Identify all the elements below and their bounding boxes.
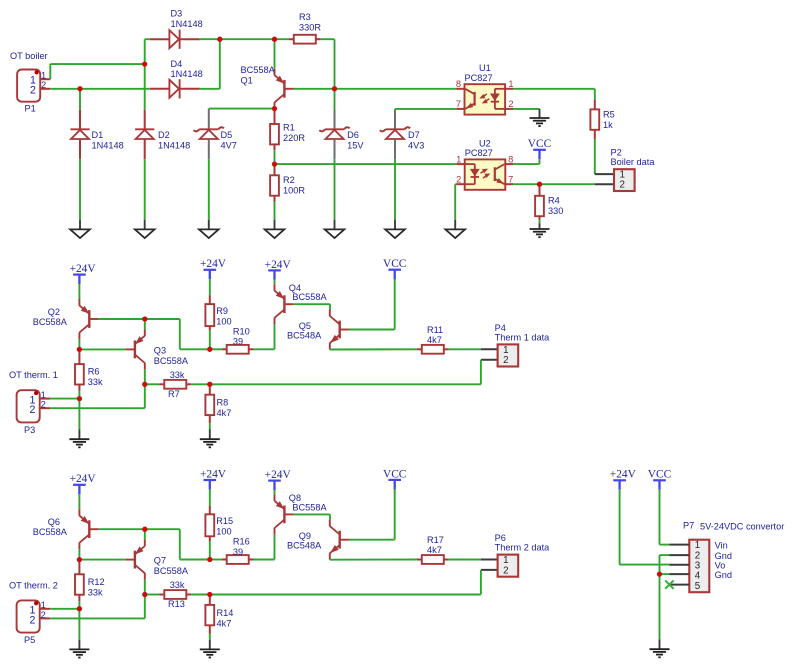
wire (78, 601, 80, 609)
wire (480, 360, 482, 385)
connector P2 (614, 169, 635, 191)
resistor R14 4k7 (209, 595, 211, 605)
ground earth (78, 430, 80, 440)
svg-text:2: 2 (30, 404, 36, 416)
wire P6 pin2 (481, 569, 498, 571)
svg-text:1k: 1k (603, 120, 613, 130)
wire (274, 150, 276, 164)
wire (78, 609, 80, 640)
wire (210, 559, 222, 561)
resistor R10 39 (222, 348, 227, 350)
svg-text:2: 2 (41, 610, 46, 620)
node junction (142, 382, 147, 387)
svg-text:+24V: +24V (265, 469, 292, 481)
wire (254, 348, 275, 350)
diode D3 (150, 38, 170, 40)
svg-text:VCC: VCC (528, 138, 551, 150)
resistor R17 4k7 (417, 559, 422, 561)
wire Q2 collector (78, 339, 80, 349)
wire P4 pin2 (481, 359, 498, 361)
connector P6 (498, 555, 519, 577)
transistor Q6 (88, 520, 90, 538)
optocoupler U1 (465, 84, 506, 114)
wire (79, 159, 81, 220)
wire P2 pin2 stub (595, 183, 614, 185)
svg-text:D5: D5 (221, 130, 233, 140)
resistor R3 (289, 38, 294, 40)
node junction (207, 382, 212, 387)
wire Q7 collector (144, 580, 146, 595)
connector P7 (689, 540, 709, 593)
svg-text:1: 1 (41, 71, 46, 81)
svg-text:1N4148: 1N4148 (171, 19, 203, 29)
wire (209, 423, 211, 429)
node junction (77, 86, 82, 91)
svg-text:PC827: PC827 (465, 148, 493, 158)
svg-text:Q5: Q5 (299, 321, 311, 331)
svg-text:P1: P1 (25, 103, 36, 113)
wire (208, 159, 210, 220)
wire (619, 490, 621, 565)
svg-text:1N4148: 1N4148 (92, 141, 124, 151)
ground (334, 220, 336, 230)
wire U1 pin2 to ground (513, 108, 539, 110)
wire R1 R2 to U2 pin1 (275, 163, 457, 165)
wire (210, 383, 481, 385)
P7 pin 1 stub (669, 544, 689, 546)
svg-text:4k7: 4k7 (427, 545, 442, 555)
svg-text:39: 39 (233, 547, 243, 557)
svg-text:VCC: VCC (383, 258, 406, 270)
wire Q1 collector (274, 108, 276, 110)
wire (321, 38, 335, 40)
transistor Q9 (339, 531, 341, 549)
wire Q5 base VCC (349, 329, 395, 331)
wire (78, 284, 80, 299)
svg-text:4k7: 4k7 (217, 408, 232, 418)
resistor R15 100 (209, 506, 211, 515)
wire Q9 emitter (330, 559, 417, 561)
svg-text:BC558A: BC558A (33, 527, 68, 537)
resistor R7 33k (145, 383, 160, 385)
svg-text:+24V: +24V (200, 258, 227, 270)
connector P1 (17, 70, 40, 102)
svg-text:BC548A: BC548A (287, 331, 322, 341)
wire (210, 348, 222, 350)
zener D7 (394, 110, 396, 129)
connector P3 (17, 390, 40, 422)
svg-text:7: 7 (456, 99, 461, 109)
resistor R6 (78, 349, 80, 364)
svg-text:R14: R14 (217, 608, 234, 618)
svg-text:D7: D7 (408, 130, 420, 140)
svg-text:1: 1 (508, 79, 513, 89)
wire (144, 39, 146, 110)
wire (210, 594, 481, 596)
wire (179, 319, 181, 349)
wire (449, 348, 481, 350)
P5 pin 1 (40, 608, 51, 610)
zener D6 (334, 89, 336, 110)
svg-text:R15: R15 (216, 516, 233, 526)
wire Q3 collector (144, 369, 146, 384)
ground (454, 220, 456, 230)
P5 pin 2 (40, 617, 51, 619)
connector P5 (17, 600, 40, 632)
P7 pin 5 stub (669, 584, 689, 586)
svg-text:+24V: +24V (610, 469, 637, 481)
wire (50, 608, 79, 610)
svg-text:330R: 330R (299, 22, 321, 32)
wire P2 pin1 stub (595, 173, 614, 175)
resistor R1 (274, 109, 276, 124)
node junction (142, 527, 147, 532)
ground earth (539, 109, 541, 118)
wire (394, 159, 396, 220)
connector P4 (498, 344, 519, 366)
svg-text:R16: R16 (233, 537, 250, 547)
wire Q4 base (294, 303, 330, 305)
svg-text:39: 39 (233, 337, 243, 347)
wire Q8 base (294, 513, 330, 515)
svg-text:330: 330 (548, 206, 563, 216)
svg-text:Q9: Q9 (299, 531, 311, 541)
svg-text:P3: P3 (24, 425, 35, 435)
transistor Q4 (283, 295, 285, 313)
wire (200, 88, 220, 90)
wire (49, 64, 51, 79)
node junction (272, 106, 277, 111)
svg-text:Q7: Q7 (154, 556, 166, 566)
wire Q7 emitter (144, 529, 146, 539)
svg-text:1: 1 (41, 390, 46, 400)
diode D2 (144, 110, 146, 130)
svg-text:4k7: 4k7 (217, 618, 232, 628)
wire (145, 38, 150, 40)
svg-text:Therm 2 data: Therm 2 data (495, 543, 551, 553)
P3 pin 1 (40, 398, 51, 400)
wire (78, 399, 80, 430)
resistor R8 4k7 (209, 384, 211, 394)
transistor Q1 (283, 80, 285, 98)
svg-text:P4: P4 (495, 323, 506, 333)
resistor R13 33k (145, 594, 160, 596)
svg-text:4k7: 4k7 (427, 335, 442, 345)
wire (209, 108, 275, 110)
svg-text:1: 1 (503, 555, 508, 566)
wire Q3 base (79, 348, 125, 350)
wire (78, 391, 80, 399)
node junction (207, 557, 212, 562)
transistor Q3 (134, 341, 136, 359)
svg-text:Q1: Q1 (241, 76, 253, 86)
wire U1 pin1 net (513, 88, 594, 90)
ground (394, 220, 396, 230)
U2 pin 1 (456, 163, 464, 165)
svg-text:4V7: 4V7 (221, 141, 237, 151)
svg-text:BC558A: BC558A (154, 566, 189, 576)
wire P1 pin2 net (50, 88, 150, 90)
svg-text:R10: R10 (233, 326, 250, 336)
resistor R11 4k7 (417, 348, 422, 350)
svg-text:2: 2 (619, 180, 624, 191)
wire (274, 202, 276, 220)
svg-text:Q3: Q3 (154, 345, 166, 355)
P3 pin 2 (40, 407, 51, 409)
P1 pin 1 (40, 78, 50, 80)
svg-text:33k: 33k (170, 370, 185, 380)
ground (79, 220, 81, 230)
svg-text:7: 7 (508, 174, 513, 184)
transistor Q7 (134, 551, 136, 569)
svg-text:R11: R11 (427, 325, 443, 335)
node junction (537, 182, 542, 187)
svg-text:100R: 100R (283, 186, 305, 196)
svg-text:BC558A: BC558A (292, 502, 327, 512)
svg-text:U1: U1 (479, 63, 491, 73)
ground earth (209, 430, 211, 440)
svg-text:D6: D6 (347, 130, 359, 140)
svg-text:BC558A: BC558A (33, 317, 68, 327)
node junction (272, 37, 277, 42)
node junction (332, 86, 337, 91)
svg-text:R7: R7 (168, 389, 180, 399)
wire (209, 331, 211, 350)
U1 pin 7 (456, 108, 464, 110)
wire (78, 494, 80, 509)
U1 pin 1 (505, 88, 513, 90)
wire U1 pin7 net (394, 109, 396, 110)
diode D4 (150, 88, 170, 90)
svg-text:R2: R2 (283, 175, 295, 185)
svg-text:VCC: VCC (648, 469, 671, 481)
U1 pin 8 (456, 88, 464, 90)
ground (274, 220, 276, 230)
wire (659, 490, 661, 545)
wire (191, 383, 210, 385)
ground earth (659, 639, 661, 649)
P7 pin 3 stub (669, 564, 689, 566)
ground earth (78, 640, 80, 650)
svg-text:R5: R5 (603, 109, 615, 119)
svg-text:2: 2 (41, 400, 46, 410)
svg-text:R12: R12 (88, 577, 105, 587)
svg-text:Boiler data: Boiler data (611, 157, 656, 167)
node junction (657, 571, 662, 576)
resistor R12 (78, 560, 80, 575)
svg-text:1: 1 (503, 345, 508, 356)
svg-text:R1: R1 (283, 123, 295, 133)
wire (179, 529, 181, 559)
svg-text:+24V: +24V (70, 263, 97, 275)
node junction (77, 606, 82, 611)
svg-text:+24V: +24V (70, 473, 97, 485)
ground earth (209, 640, 211, 650)
node junction (207, 592, 212, 597)
wire (50, 617, 145, 619)
svg-text:P5: P5 (24, 635, 35, 645)
svg-text:Therm 1 data: Therm 1 data (495, 333, 551, 343)
svg-text:BC558A: BC558A (154, 356, 189, 366)
resistor R5 (594, 100, 596, 110)
wire Q7 base (79, 559, 125, 561)
wire (594, 139, 596, 174)
wire (539, 220, 541, 224)
node junction (272, 161, 277, 166)
ground (144, 220, 146, 230)
resistor R4 (539, 184, 541, 196)
svg-text:2: 2 (508, 99, 513, 109)
node junction (217, 37, 222, 42)
svg-text:P7: P7 (683, 521, 694, 531)
wire (200, 38, 220, 40)
wire Q6 base (99, 528, 180, 530)
optocoupler U2 (465, 159, 506, 189)
svg-text:D3: D3 (171, 8, 183, 18)
wire Q1 emitter (274, 39, 276, 69)
svg-text:100: 100 (216, 316, 231, 326)
svg-text:33k: 33k (88, 587, 103, 597)
svg-text:R17: R17 (427, 535, 444, 545)
resistor R2 (274, 164, 276, 175)
svg-text:R13: R13 (168, 599, 185, 609)
U2 pin 2 (456, 183, 464, 185)
svg-text:D4: D4 (171, 59, 183, 69)
svg-text:100: 100 (216, 527, 231, 537)
svg-text:33k: 33k (170, 580, 185, 590)
wire (449, 559, 481, 561)
resistor R16 39 (222, 559, 227, 561)
svg-text:R3: R3 (299, 12, 311, 22)
node junction (142, 316, 147, 321)
wire (144, 159, 146, 220)
ground earth (539, 224, 541, 230)
svg-text:2: 2 (456, 174, 461, 184)
node junction (77, 396, 82, 401)
node junction (77, 347, 82, 352)
svg-text:8: 8 (456, 79, 461, 89)
wire (191, 594, 210, 596)
wire Q2 base (99, 318, 180, 320)
wire (220, 38, 289, 40)
node junction (142, 592, 147, 597)
U2 pin 7 (505, 183, 513, 185)
wire (334, 159, 336, 220)
U1 pin 2 (505, 108, 513, 110)
svg-text:R6: R6 (88, 367, 100, 377)
svg-text:U2: U2 (479, 139, 491, 149)
wire (209, 541, 211, 560)
wire (539, 159, 541, 164)
svg-text:PC827: PC827 (465, 73, 493, 83)
svg-text:2: 2 (503, 565, 508, 576)
svg-text:BC558A: BC558A (241, 65, 276, 75)
wire U2 pin2 to ground (455, 183, 456, 185)
wire (254, 559, 275, 561)
svg-text:D1: D1 (92, 130, 104, 140)
wire (660, 573, 670, 575)
diode D1 (79, 89, 81, 110)
svg-text:D2: D2 (158, 130, 170, 140)
wire Q1 base (294, 88, 457, 90)
svg-text:BC558A: BC558A (292, 292, 327, 302)
wire (209, 279, 211, 295)
svg-text:OT therm. 1: OT therm. 1 (9, 370, 58, 380)
wire P6 pin1 stub (481, 559, 498, 561)
node junction (142, 61, 147, 66)
svg-text:+24V: +24V (200, 468, 227, 480)
svg-text:+24V: +24V (265, 259, 292, 271)
wire (274, 280, 276, 284)
svg-text:Gnd: Gnd (715, 570, 732, 580)
wire Q5 emitter (330, 348, 417, 350)
svg-text:2: 2 (30, 614, 36, 626)
svg-text:VCC: VCC (383, 468, 406, 480)
wire Q9 base VCC (349, 539, 395, 541)
node junction (77, 557, 82, 562)
P7 pin 2 stub (669, 554, 689, 556)
svg-text:1N4148: 1N4148 (158, 141, 190, 151)
svg-text:1: 1 (41, 600, 46, 610)
svg-text:15V: 15V (347, 141, 364, 151)
svg-text:Vin: Vin (715, 540, 728, 550)
svg-text:P6: P6 (495, 533, 506, 543)
wire U2 pin7 net (513, 183, 595, 185)
svg-text:220R: 220R (283, 133, 305, 143)
transistor Q2 (88, 310, 90, 328)
svg-text:33k: 33k (88, 377, 103, 387)
transistor Q8 (283, 506, 285, 524)
wire (209, 634, 211, 640)
no-connect cross pin 5 (665, 580, 673, 588)
svg-text:P2: P2 (611, 147, 622, 157)
svg-text:OT boiler: OT boiler (10, 51, 48, 61)
svg-text:2: 2 (41, 80, 46, 90)
svg-text:R8: R8 (217, 398, 229, 408)
svg-text:OT therm. 2: OT therm. 2 (9, 580, 58, 590)
resistor R9 100 (209, 296, 211, 305)
wire Q3 emitter (144, 319, 146, 329)
zener D5 (208, 109, 210, 130)
svg-text:8: 8 (508, 154, 513, 164)
wire (274, 490, 276, 494)
transistor Q5 (339, 321, 341, 339)
svg-text:R9: R9 (216, 306, 228, 316)
svg-text:R4: R4 (548, 195, 560, 205)
wire P4 pin1 stub (481, 348, 498, 350)
U2 pin 8 (505, 163, 513, 165)
svg-text:2: 2 (30, 84, 36, 96)
svg-text:5: 5 (695, 581, 701, 592)
ground (208, 220, 210, 230)
wire (50, 407, 145, 409)
P7 pin 4 stub (669, 573, 689, 575)
wire gnd net (660, 554, 670, 556)
wire (50, 398, 79, 400)
svg-text:BC548A: BC548A (287, 541, 322, 551)
wire Q6 collector (78, 549, 80, 559)
svg-text:2: 2 (503, 355, 508, 366)
node junction (207, 347, 212, 352)
svg-text:4V3: 4V3 (408, 141, 424, 151)
svg-text:Q6: Q6 (48, 517, 60, 527)
svg-text:Q2: Q2 (48, 307, 60, 317)
svg-text:Gnd: Gnd (715, 551, 732, 561)
svg-text:5V-24VDC convertor: 5V-24VDC convertor (700, 521, 784, 531)
wire (209, 489, 211, 505)
wire (480, 570, 482, 595)
svg-text:1N4148: 1N4148 (171, 69, 203, 79)
